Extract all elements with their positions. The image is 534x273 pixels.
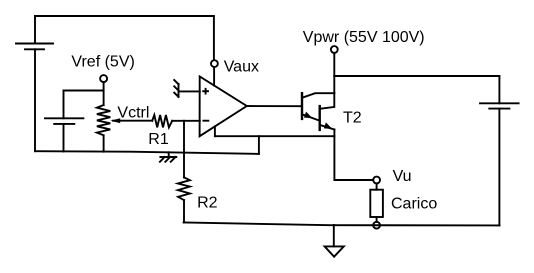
transistor Q1 collector [302,93,334,98]
svg-text:Vaux: Vaux [224,59,259,76]
node Vpwr terminal [331,46,338,53]
wire load bottom lead [376,217,378,222]
chassis ground at op-amp + input [174,80,178,97]
battery V3 (right) [480,103,519,108]
node Vref terminal [100,75,107,82]
wire Vref to potentiometer top [103,82,105,105]
wire battery V3 top lead [498,76,500,103]
ground symbol [325,246,344,256]
wire mid ground rail [35,151,259,154]
node R1/R2 junction vertical [183,121,185,178]
chassis ground below mid rail [160,152,176,162]
svg-text:Vctrl: Vctrl [117,104,149,121]
wire Vu to load [376,183,378,189]
wire op-amp output to T1 base [247,105,302,107]
transistor T2 base bar [319,106,321,130]
load Carico (box resistor) [370,190,383,217]
wire T2 emitter down [333,130,335,181]
wire top rail left [35,15,214,17]
transistor T2 emitter [320,122,335,129]
transistor Q1 emitter [302,112,320,121]
wire potentiometer bottom lead [103,135,105,151]
resistor R1 [152,115,172,127]
wire battery V2 top lead [63,91,65,119]
wire battery V3 bottom lead [498,109,500,226]
wire bottom ground rail [184,223,500,226]
op-amp - input marker [203,120,208,122]
wire feedback branch down to mid rail [258,136,260,154]
node Vaux terminal [211,60,218,67]
svg-text:R1: R1 [148,131,169,148]
node Vu terminal [373,177,380,184]
battery V2 (lower-left) [45,118,83,124]
potentiometer wiper arrow [110,118,152,123]
wire feedback horizontal run [215,135,335,137]
battery V1 (top-left) [16,44,53,50]
transistor T2 collector [320,76,335,109]
wire feedback tap from op-amp bottom edge [214,126,216,136]
svg-text:R2: R2 [197,194,218,211]
wire branch to battery V2 [64,90,104,92]
wire top rail to Vaux terminal [213,16,215,60]
svg-text:Vref (5V): Vref (5V) [71,54,134,71]
wire Vaux terminal to op-amp top edge [213,67,215,85]
wire battery V1 bottom lead to mid rail [34,49,36,151]
wire battery V2 bottom lead to mid rail [63,124,65,152]
svg-text:Carico: Carico [391,195,437,212]
wire emitter to load top [334,179,373,181]
wire R2 bottom lead [183,200,185,222]
wire top rail right [334,75,499,77]
wire Vpwr terminal down to rail [333,53,335,76]
wire chassis to op-amp + input [179,90,200,92]
op-amp U1 [200,77,247,137]
wire R1 to op-amp inverting input [172,120,200,122]
resistor R2 [178,177,190,200]
op-amp + input marker [203,89,208,94]
potentiometer P1 body [97,105,110,135]
wire battery V1 top lead [34,16,36,44]
ground stem [333,225,335,246]
svg-text:T2: T2 [343,109,362,126]
node load bottom terminal [373,222,380,229]
svg-text:Vu: Vu [393,168,412,185]
transistor Q1 base bar [301,93,303,119]
svg-text:Vpwr (55V 100V): Vpwr (55V 100V) [303,29,425,46]
